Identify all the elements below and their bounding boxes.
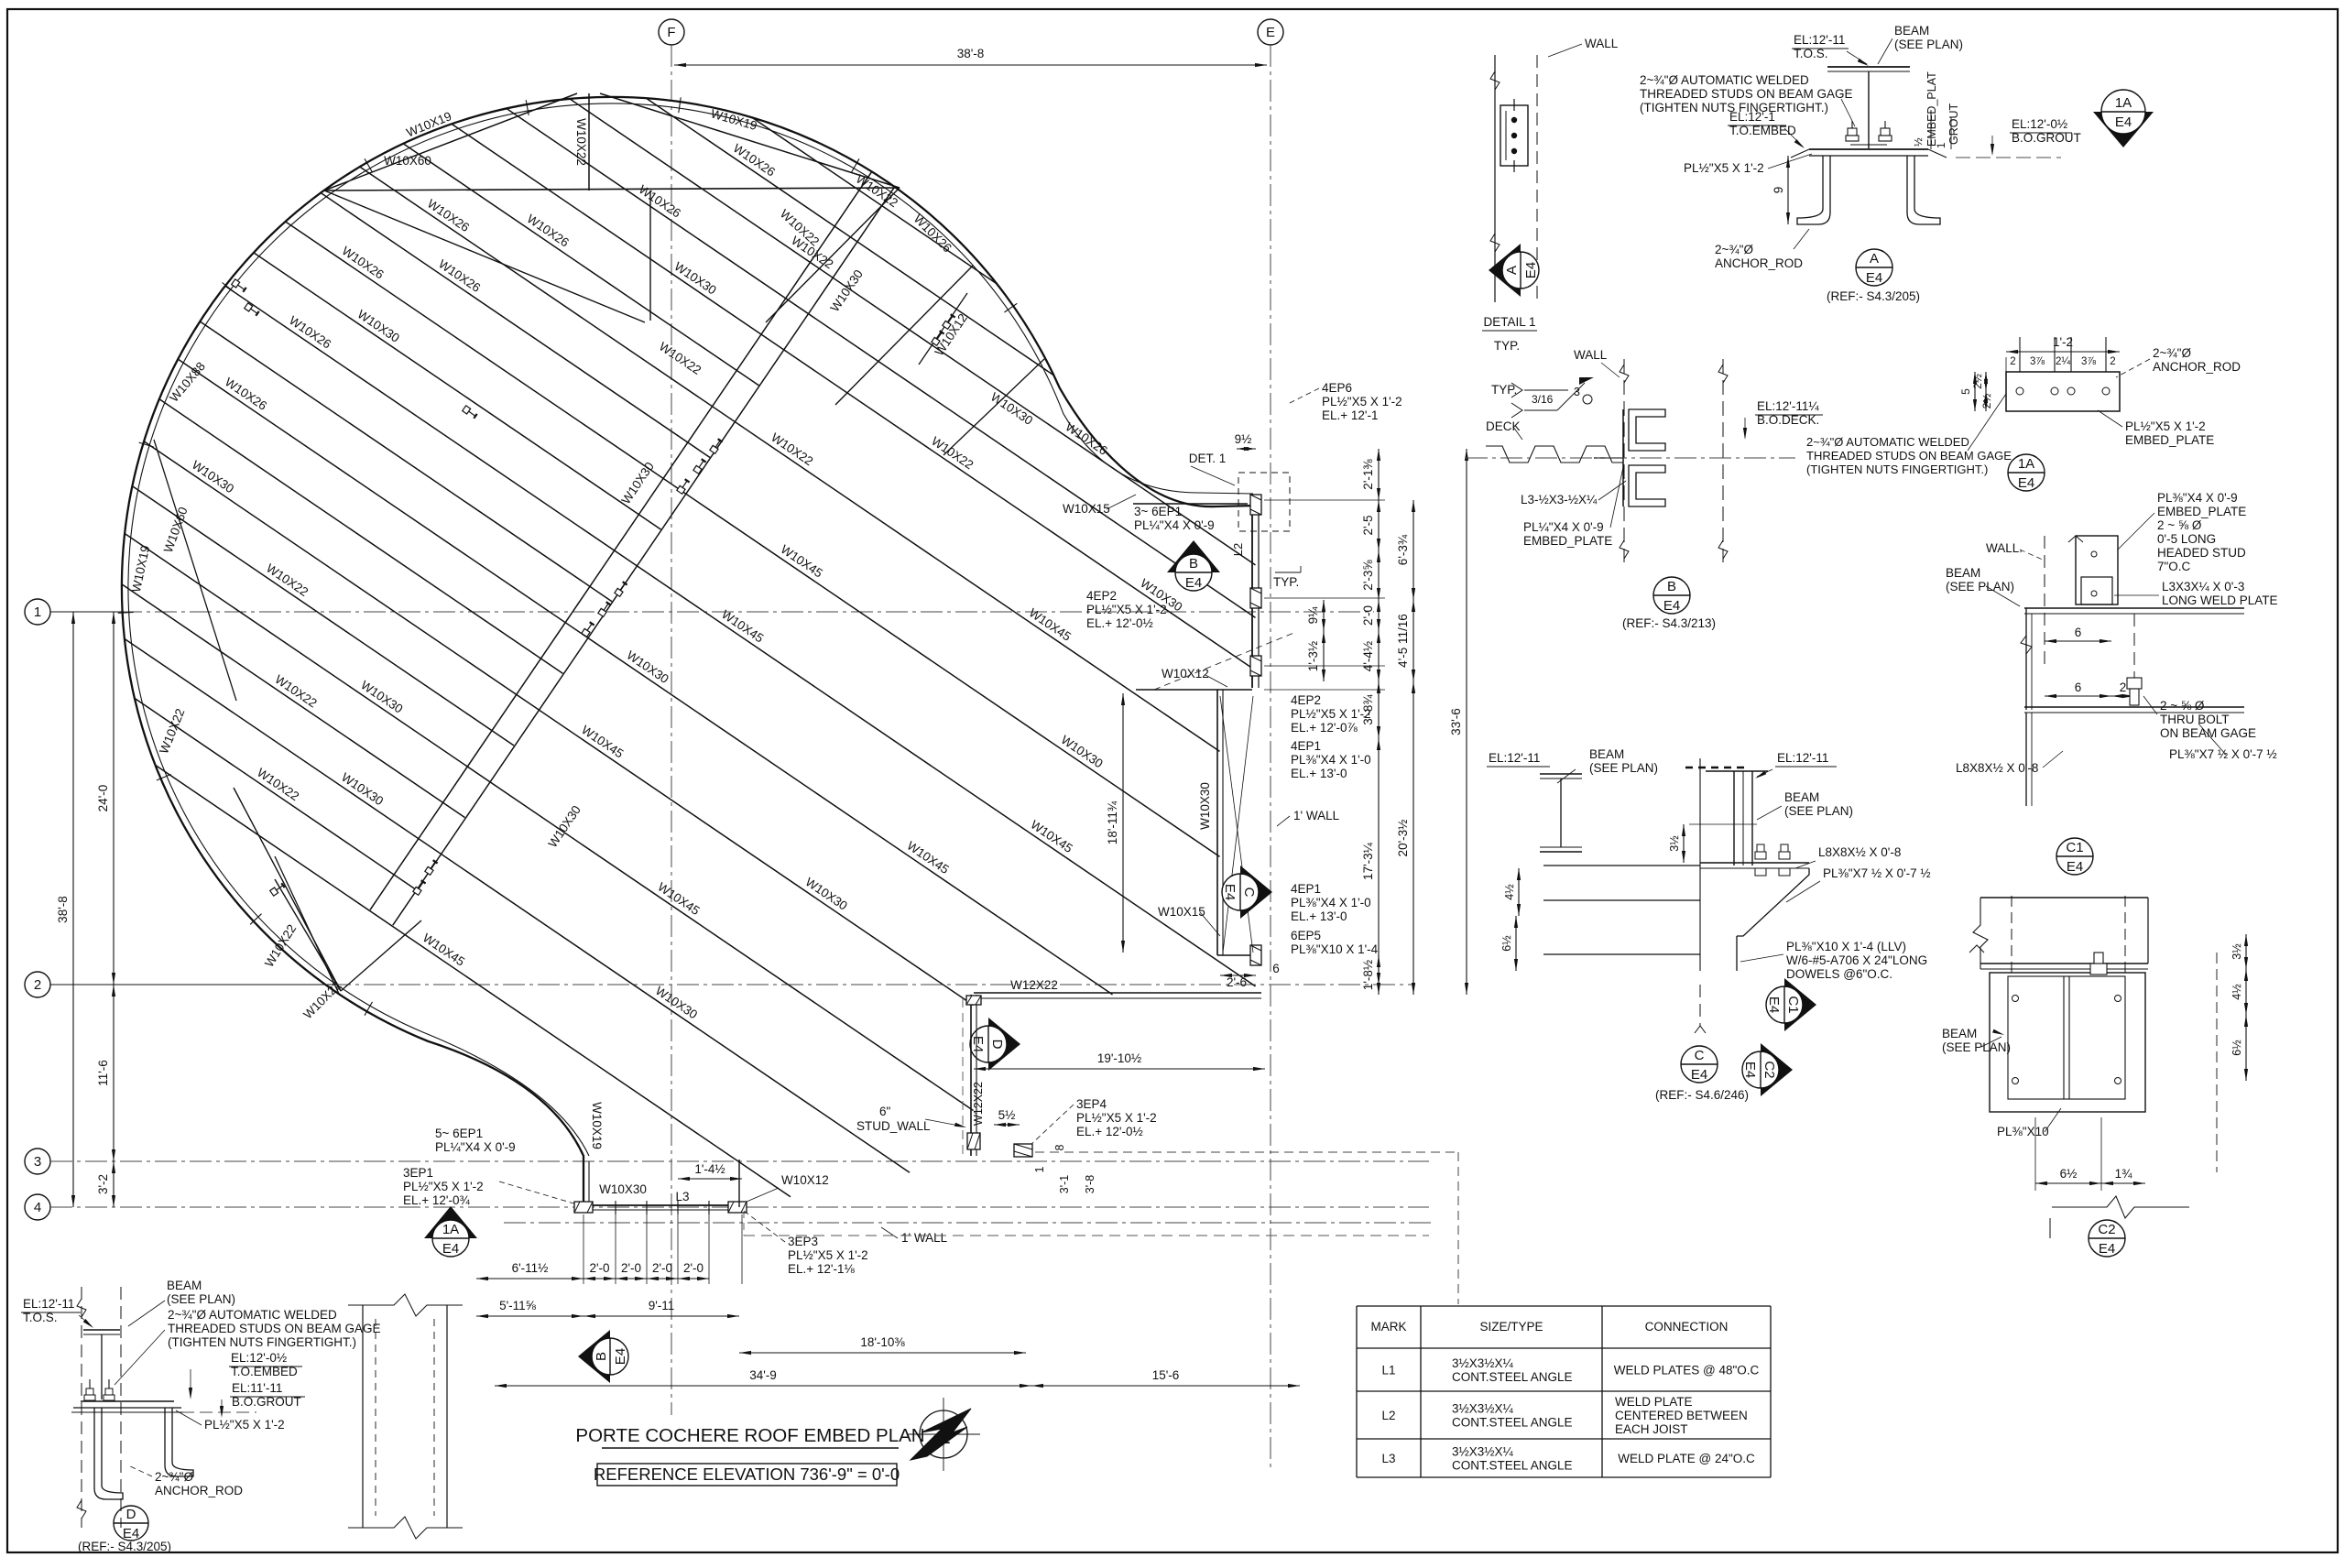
svg-text:TYP.: TYP. [1494, 339, 1520, 353]
svg-text:BEAM: BEAM [167, 1279, 202, 1292]
svg-text:W10X30: W10X30 [599, 1182, 647, 1196]
svg-text:2¼: 2¼ [2056, 356, 2070, 367]
svg-text:3'-8: 3'-8 [1084, 1175, 1096, 1194]
svg-text:(SEE PLAN): (SEE PLAN) [1894, 38, 1963, 51]
svg-text:2'-0: 2'-0 [652, 1261, 672, 1275]
svg-text:W12X22: W12X22 [1010, 978, 1058, 992]
svg-text:1: 1 [1936, 143, 1947, 148]
svg-text:E4: E4 [2115, 114, 2132, 130]
svg-text:1'-4½: 1'-4½ [694, 1162, 725, 1176]
svg-text:C1: C1 [2066, 840, 2083, 855]
svg-text:1A: 1A [442, 1222, 459, 1237]
svg-text:2~¾"Ø: 2~¾"Ø [155, 1470, 193, 1484]
svg-text:PL¼"X4 X 0'-9: PL¼"X4 X 0'-9 [1523, 520, 1604, 534]
svg-text:PL½"X5 X 1'-2: PL½"X5 X 1'-2 [2125, 419, 2206, 433]
svg-text:E4: E4 [1766, 996, 1782, 1013]
svg-text:DETAIL 1: DETAIL 1 [1483, 315, 1535, 329]
svg-text:WALL: WALL [1574, 348, 1608, 362]
svg-text:E4: E4 [2067, 859, 2083, 875]
svg-text:PL⅜"X10 X 1'-4: PL⅜"X10 X 1'-4 [1291, 942, 1379, 956]
svg-text:1: 1 [1033, 1166, 1046, 1172]
svg-text:B: B [1189, 556, 1198, 572]
svg-text:SIZE/TYPE: SIZE/TYPE [1479, 1320, 1543, 1334]
svg-text:A: A [1504, 266, 1520, 275]
svg-text:E4: E4 [2099, 1241, 2115, 1257]
svg-text:0'-5 LONG: 0'-5 LONG [2157, 532, 2216, 546]
svg-text:CONT.STEEL ANGLE: CONT.STEEL ANGLE [1452, 1459, 1573, 1473]
svg-text:PL½"X5 X 1'-2: PL½"X5 X 1'-2 [1684, 161, 1764, 175]
svg-text:2: 2 [34, 977, 41, 993]
svg-text:ANCHOR_ROD: ANCHOR_ROD [1715, 256, 1803, 270]
svg-text:2~¾"Ø: 2~¾"Ø [1715, 243, 1753, 256]
svg-text:EL.+ 12'-1: EL.+ 12'-1 [1322, 408, 1379, 422]
svg-text:(TIGHTEN NUTS FINGERTIGHT.): (TIGHTEN NUTS FINGERTIGHT.) [1806, 463, 1988, 476]
svg-text:WELD PLATE @ 24"O.C: WELD PLATE @ 24"O.C [1618, 1452, 1755, 1465]
svg-text:18'-11¾: 18'-11¾ [1106, 800, 1119, 844]
svg-text:EL.+ 12'-0½: EL.+ 12'-0½ [1086, 616, 1153, 630]
svg-text:PL⅜"X10 X 1'-4 (LLV): PL⅜"X10 X 1'-4 (LLV) [1786, 940, 1906, 953]
svg-text:W/6-#5-A706 X 24"LONG: W/6-#5-A706 X 24"LONG [1786, 953, 1927, 967]
svg-text:6½: 6½ [2060, 1167, 2078, 1181]
svg-text:EL.+ 13'-0: EL.+ 13'-0 [1291, 767, 1347, 780]
svg-text:ON BEAM GAGE: ON BEAM GAGE [2160, 726, 2256, 740]
svg-text:A: A [1870, 251, 1879, 267]
svg-text:PORTE COCHERE ROOF EMBED PLAN: PORTE COCHERE ROOF EMBED PLAN [575, 1425, 924, 1446]
svg-text:(SEE PLAN): (SEE PLAN) [1784, 804, 1853, 818]
svg-text:2 ~ ⅝ Ø: 2 ~ ⅝ Ø [2157, 518, 2202, 532]
svg-text:HEADED STUD: HEADED STUD [2157, 546, 2246, 560]
svg-text:3: 3 [1574, 386, 1580, 398]
svg-text:2~¾"Ø AUTOMATIC WELDED: 2~¾"Ø AUTOMATIC WELDED [1806, 435, 1969, 449]
svg-text:E4: E4 [1185, 575, 1202, 591]
svg-text:6½: 6½ [2230, 1040, 2243, 1056]
svg-text:PL½"X5 X 1'-2: PL½"X5 X 1'-2 [204, 1418, 285, 1432]
svg-text:(SEE PLAN): (SEE PLAN) [167, 1292, 235, 1306]
svg-text:EL:12'-11: EL:12'-11 [1777, 751, 1828, 765]
svg-text:C: C [1695, 1048, 1705, 1063]
svg-text:3~ 6EP1: 3~ 6EP1 [1134, 505, 1182, 518]
svg-text:E4: E4 [1663, 598, 1680, 614]
svg-text:9: 9 [1772, 187, 1785, 194]
svg-text:4'-5 11/16: 4'-5 11/16 [1396, 614, 1410, 668]
svg-text:(SEE PLAN): (SEE PLAN) [1946, 580, 2014, 593]
svg-text:2~¾"Ø AUTOMATIC WELDED: 2~¾"Ø AUTOMATIC WELDED [168, 1308, 337, 1322]
svg-text:15'-6: 15'-6 [1152, 1368, 1180, 1382]
svg-text:2: 2 [2110, 356, 2115, 367]
svg-text:F: F [667, 25, 675, 40]
svg-text:DOWELS @6"O.C.: DOWELS @6"O.C. [1786, 967, 1892, 981]
svg-text:PL⅜"X4 X 0'-9: PL⅜"X4 X 0'-9 [2157, 491, 2238, 505]
svg-text:THRU BOLT: THRU BOLT [2160, 713, 2230, 726]
svg-text:2 ~ ⅝ Ø: 2 ~ ⅝ Ø [2160, 699, 2205, 713]
svg-text:CONT.STEEL ANGLE: CONT.STEEL ANGLE [1452, 1370, 1573, 1384]
svg-text:3½X3½X¼: 3½X3½X¼ [1452, 1445, 1514, 1459]
svg-text:½: ½ [1914, 137, 1925, 147]
svg-text:EL:12'-0½: EL:12'-0½ [2012, 117, 2067, 131]
svg-text:W10X22: W10X22 [574, 118, 588, 166]
svg-text:BEAM: BEAM [1589, 747, 1624, 761]
svg-text:6EP5: 6EP5 [1291, 929, 1321, 942]
svg-text:6: 6 [1272, 962, 1280, 975]
svg-text:3'-1: 3'-1 [1058, 1175, 1071, 1194]
svg-text:L8X8X½ X 0'-8: L8X8X½ X 0'-8 [1956, 761, 2038, 775]
svg-text:L2: L2 [1381, 1409, 1395, 1422]
svg-text:4'-4½: 4'-4½ [1361, 641, 1375, 671]
svg-text:2~¾"Ø: 2~¾"Ø [2153, 346, 2191, 360]
svg-text:38'-8: 38'-8 [56, 896, 70, 923]
svg-text:EACH JOIST: EACH JOIST [1615, 1422, 1688, 1436]
svg-text:C2: C2 [2098, 1222, 2115, 1237]
svg-text:2: 2 [2010, 356, 2015, 367]
svg-text:PL½"X5 X 1'-2: PL½"X5 X 1'-2 [403, 1180, 484, 1193]
svg-text:2'-0: 2'-0 [621, 1261, 641, 1275]
svg-text:17'-3¼: 17'-3¼ [1361, 842, 1375, 880]
svg-text:20'-3½: 20'-3½ [1396, 820, 1410, 857]
svg-text:E4: E4 [613, 1348, 628, 1365]
svg-text:6'-11½: 6'-11½ [512, 1261, 549, 1275]
svg-text:EMBED_PLATE: EMBED_PLATE [2125, 433, 2214, 447]
svg-text:3: 3 [34, 1154, 41, 1170]
svg-text:ANCHOR_ROD: ANCHOR_ROD [155, 1484, 243, 1497]
svg-text:1A: 1A [2115, 95, 2132, 111]
svg-text:33'-6: 33'-6 [1449, 708, 1463, 735]
svg-text:E4: E4 [1691, 1067, 1707, 1083]
svg-text:PL½"X5 X 1'-2: PL½"X5 X 1'-2 [788, 1248, 868, 1262]
svg-text:E: E [1266, 25, 1275, 40]
svg-text:WALL.: WALL. [1986, 541, 2023, 555]
svg-text:EL:12'-11¼: EL:12'-11¼ [1757, 399, 1819, 413]
svg-text:PL⅜"X7 ½ X 0'-7 ½: PL⅜"X7 ½ X 0'-7 ½ [2169, 747, 2277, 761]
svg-text:PL½"X5 X 1'-2: PL½"X5 X 1'-2 [1291, 707, 1371, 721]
svg-text:3EP4: 3EP4 [1076, 1097, 1107, 1111]
svg-text:W10X60: W10X60 [384, 154, 431, 168]
svg-text:3½: 3½ [2230, 943, 2243, 960]
svg-text:3⅞: 3⅞ [2081, 356, 2096, 367]
svg-text:4: 4 [34, 1200, 41, 1215]
svg-text:6½: 6½ [1500, 935, 1513, 952]
svg-text:1'-8½: 1'-8½ [1361, 960, 1375, 990]
svg-text:4EP2: 4EP2 [1291, 693, 1321, 707]
svg-text:W10X12: W10X12 [1162, 667, 1209, 681]
svg-text:1¾: 1¾ [2115, 1167, 2133, 1181]
svg-text:TYP.: TYP. [1273, 575, 1299, 589]
svg-text:L1: L1 [1381, 1364, 1395, 1377]
svg-text:B: B [594, 1352, 609, 1361]
svg-text:2'-5: 2'-5 [1361, 515, 1375, 535]
svg-text:3EP3: 3EP3 [788, 1235, 818, 1248]
svg-text:11'-6: 11'-6 [96, 1060, 110, 1086]
svg-text:W10X15: W10X15 [1063, 502, 1110, 516]
svg-text:4EP2: 4EP2 [1086, 589, 1117, 603]
svg-text:1'-3½: 1'-3½ [1306, 641, 1320, 671]
svg-text:CONT.STEEL ANGLE: CONT.STEEL ANGLE [1452, 1416, 1573, 1430]
svg-text:CENTERED BETWEEN: CENTERED BETWEEN [1615, 1409, 1748, 1422]
svg-text:(SEE PLAN): (SEE PLAN) [1942, 1040, 2011, 1054]
svg-text:BEAM: BEAM [1894, 24, 1929, 38]
svg-text:4½: 4½ [1503, 884, 1516, 900]
svg-text:GROUT: GROUT [1947, 103, 1960, 146]
svg-text:BEAM: BEAM [1942, 1027, 1977, 1040]
svg-text:B: B [1667, 579, 1676, 594]
svg-text:38'-8: 38'-8 [957, 47, 985, 60]
svg-text:WELD PLATES @ 48"O.C: WELD PLATES @ 48"O.C [1614, 1364, 1760, 1377]
svg-text:W10X30: W10X30 [1198, 782, 1212, 830]
svg-text:6'-3¾: 6'-3¾ [1396, 534, 1410, 565]
svg-text:C1: C1 [1785, 996, 1801, 1013]
svg-text:2'-3⅝: 2'-3⅝ [1361, 560, 1375, 591]
svg-text:TYP.: TYP. [1491, 383, 1517, 397]
svg-text:EL.+ 12'-0¾: EL.+ 12'-0¾ [403, 1193, 470, 1207]
svg-text:5~ 6EP1: 5~ 6EP1 [435, 1127, 483, 1140]
svg-text:PL¼"X4 X 0'-9: PL¼"X4 X 0'-9 [435, 1140, 516, 1154]
svg-text:(TIGHTEN NUTS FINGERTIGHT.): (TIGHTEN NUTS FINGERTIGHT.) [168, 1335, 356, 1349]
svg-text:PL⅜"X10: PL⅜"X10 [1997, 1125, 2049, 1138]
svg-text:9½: 9½ [1235, 432, 1252, 446]
svg-text:3½X3½X¼: 3½X3½X¼ [1452, 1402, 1514, 1416]
svg-text:1' WALL: 1' WALL [1293, 809, 1340, 822]
svg-text:D: D [126, 1507, 136, 1522]
svg-text:EL:12'-11: EL:12'-11 [23, 1297, 74, 1311]
svg-text:L3X3X¼ X 0'-3: L3X3X¼ X 0'-3 [2162, 580, 2244, 593]
svg-text:THREADED STUDS ON BEAM GAGE: THREADED STUDS ON BEAM GAGE [1806, 449, 2012, 463]
svg-text:L2: L2 [1231, 543, 1245, 556]
svg-text:PL½"X5 X 1'-2: PL½"X5 X 1'-2 [1322, 395, 1402, 408]
svg-text:Z: Z [939, 1427, 951, 1448]
svg-text:EMBED_PLATE: EMBED_PLATE [2157, 505, 2246, 518]
svg-text:D: D [989, 1040, 1005, 1050]
svg-text:MARK: MARK [1370, 1320, 1406, 1334]
svg-text:3EP1: 3EP1 [403, 1166, 433, 1180]
svg-text:THREADED STUDS ON BEAM GAGE: THREADED STUDS ON BEAM GAGE [168, 1322, 381, 1335]
svg-text:W10X19: W10X19 [590, 1102, 604, 1149]
svg-text:2½: 2½ [1971, 374, 1984, 389]
svg-text:9¼: 9¼ [1306, 606, 1320, 625]
svg-text:C2: C2 [1761, 1061, 1777, 1078]
svg-text:E4: E4 [2018, 475, 2034, 491]
svg-text:5: 5 [1959, 388, 1972, 395]
svg-text:PL⅜"X7 ½ X 0'-7 ½: PL⅜"X7 ½ X 0'-7 ½ [1823, 866, 1931, 880]
svg-text:(SEE PLAN): (SEE PLAN) [1589, 761, 1658, 775]
svg-text:EL:11'-11: EL:11'-11 [232, 1381, 282, 1395]
svg-text:E4: E4 [1742, 1062, 1758, 1078]
svg-text:4EP1: 4EP1 [1291, 882, 1321, 896]
svg-text:WALL: WALL [1585, 37, 1619, 50]
svg-text:E4: E4 [970, 1036, 986, 1052]
svg-text:PL½"X5 X 1'-2: PL½"X5 X 1'-2 [1076, 1111, 1157, 1125]
svg-text:(REF:- S4.6/246): (REF:- S4.6/246) [1655, 1088, 1749, 1102]
svg-text:2'-0: 2'-0 [1361, 605, 1375, 626]
svg-text:7"O.C: 7"O.C [2157, 560, 2191, 573]
svg-text:1' WALL: 1' WALL [901, 1231, 948, 1245]
svg-text:EL:12'-11: EL:12'-11 [1489, 751, 1540, 765]
svg-text:EL:12'-1: EL:12'-1 [1729, 110, 1775, 124]
svg-text:E4: E4 [1866, 270, 1882, 286]
svg-text:5'-11⅝: 5'-11⅝ [499, 1299, 537, 1312]
svg-text:2~¾"Ø AUTOMATIC WELDED: 2~¾"Ø AUTOMATIC WELDED [1640, 73, 1809, 87]
svg-text:24'-0: 24'-0 [96, 785, 110, 812]
svg-text:L3-½X3-½X¼: L3-½X3-½X¼ [1521, 493, 1598, 506]
svg-text:PL⅜"X4 X 1'-0: PL⅜"X4 X 1'-0 [1291, 896, 1371, 909]
svg-text:6: 6 [2075, 681, 2082, 694]
svg-text:(REF:- S4.3/205): (REF:- S4.3/205) [78, 1540, 171, 1553]
svg-text:L8X8X½ X 0'-8: L8X8X½ X 0'-8 [1818, 845, 1901, 859]
svg-text:PL⅜"X4 X 1'-0: PL⅜"X4 X 1'-0 [1291, 753, 1371, 767]
svg-text:5½: 5½ [998, 1108, 1016, 1122]
svg-text:2: 2 [2120, 681, 2127, 694]
svg-text:LONG WELD PLATE: LONG WELD PLATE [2162, 593, 2278, 607]
svg-text:ANCHOR_ROD: ANCHOR_ROD [2153, 360, 2241, 374]
svg-text:1: 1 [34, 604, 41, 620]
svg-text:WELD PLATE: WELD PLATE [1615, 1395, 1693, 1409]
svg-text:EL.+ 12'-0½: EL.+ 12'-0½ [1076, 1125, 1143, 1138]
svg-text:(REF:- S4.3/205): (REF:- S4.3/205) [1827, 289, 1920, 303]
svg-text:EMBED_PLATE: EMBED_PLATE [1523, 534, 1612, 548]
svg-text:PL½"X5 X 1'-2: PL½"X5 X 1'-2 [1086, 603, 1167, 616]
svg-text:EMBED_PLAT: EMBED_PLAT [1925, 71, 1938, 147]
svg-text:2'-6: 2'-6 [1227, 975, 1247, 989]
svg-text:L3: L3 [675, 1190, 689, 1203]
svg-text:STUD_WALL: STUD_WALL [856, 1119, 931, 1133]
svg-text:W10X15: W10X15 [1158, 905, 1205, 919]
svg-text:E4: E4 [442, 1241, 459, 1257]
svg-text:REFERENCE ELEVATION 736'-9" =: REFERENCE ELEVATION 736'-9" = 0'-0 [594, 1465, 900, 1484]
svg-text:L3: L3 [1381, 1452, 1395, 1465]
svg-text:EL.+ 12'-0⅞: EL.+ 12'-0⅞ [1291, 721, 1358, 735]
svg-text:9'-11: 9'-11 [649, 1299, 675, 1312]
svg-text:EL.+ 12'-1⅛: EL.+ 12'-1⅛ [788, 1262, 855, 1276]
svg-text:2'-1⅜: 2'-1⅜ [1361, 459, 1375, 490]
svg-text:1'-2: 1'-2 [2053, 335, 2073, 349]
svg-text:18'-10⅜: 18'-10⅜ [860, 1335, 905, 1349]
svg-text:E4: E4 [1523, 262, 1539, 278]
svg-text:2'-0: 2'-0 [589, 1261, 609, 1275]
svg-text:19'-10½: 19'-10½ [1097, 1051, 1141, 1065]
svg-text:34'-9: 34'-9 [749, 1368, 777, 1382]
svg-text:2½: 2½ [1980, 394, 1993, 409]
svg-text:8: 8 [1053, 1144, 1066, 1150]
svg-text:BEAM: BEAM [1784, 790, 1819, 804]
svg-text:3/16: 3/16 [1532, 393, 1554, 406]
svg-text:4½: 4½ [2230, 984, 2243, 1000]
svg-text:E4: E4 [1222, 884, 1238, 900]
svg-text:(REF:- S4.3/213): (REF:- S4.3/213) [1622, 616, 1716, 630]
svg-text:3'-8¾: 3'-8¾ [1361, 694, 1375, 725]
svg-text:1A: 1A [2018, 456, 2034, 472]
svg-text:3⅞: 3⅞ [2030, 356, 2045, 367]
svg-text:W12X22: W12X22 [972, 1082, 985, 1126]
svg-text:3½X3½X¼: 3½X3½X¼ [1452, 1356, 1514, 1370]
svg-text:6: 6 [2075, 626, 2082, 639]
svg-text:4EP6: 4EP6 [1322, 381, 1352, 395]
svg-text:EL:12'-0½: EL:12'-0½ [231, 1351, 287, 1365]
svg-text:EL:12'-11: EL:12'-11 [1794, 33, 1845, 47]
svg-text:4EP1: 4EP1 [1291, 739, 1321, 753]
svg-text:DECK: DECK [1486, 419, 1521, 433]
svg-text:BEAM: BEAM [1946, 566, 1980, 580]
svg-text:EL.+ 13'-0: EL.+ 13'-0 [1291, 909, 1347, 923]
svg-text:CONNECTION: CONNECTION [1645, 1320, 1729, 1334]
svg-text:3'-2: 3'-2 [96, 1174, 110, 1194]
svg-text:C: C [1241, 887, 1257, 898]
svg-text:3½: 3½ [1668, 835, 1681, 852]
svg-text:6": 6" [879, 1105, 891, 1118]
svg-text:THREADED STUDS ON BEAM GAGE: THREADED STUDS ON BEAM GAGE [1640, 87, 1853, 101]
svg-text:DET. 1: DET. 1 [1189, 452, 1227, 465]
svg-text:2'-0: 2'-0 [683, 1261, 703, 1275]
svg-text:PL¼"X4 X 0'-9: PL¼"X4 X 0'-9 [1134, 518, 1215, 532]
svg-text:W10X12: W10X12 [781, 1173, 829, 1187]
